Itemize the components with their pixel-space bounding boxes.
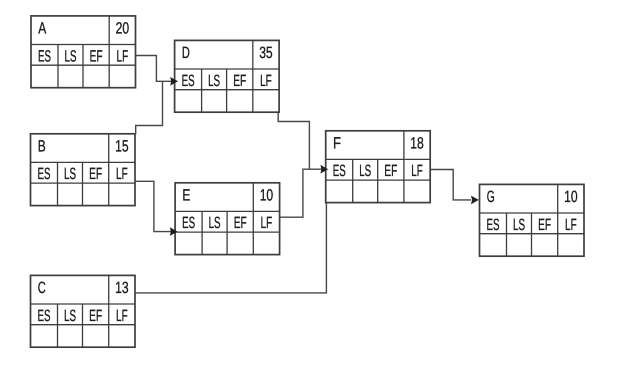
svg-text:LS: LS (65, 47, 77, 65)
svg-text:LS: LS (209, 214, 221, 232)
svg-text:10: 10 (260, 187, 274, 205)
svg-text:F: F (333, 135, 341, 153)
svg-text:13: 13 (115, 279, 129, 297)
svg-text:LF: LF (261, 214, 273, 232)
svg-text:LS: LS (513, 216, 525, 234)
svg-text:B: B (38, 138, 46, 156)
svg-text:ES: ES (182, 214, 195, 232)
svg-text:LF: LF (565, 216, 577, 234)
svg-text:EF: EF (538, 216, 551, 234)
svg-text:G: G (487, 188, 495, 206)
svg-text:LS: LS (359, 162, 371, 180)
svg-text:LF: LF (411, 162, 423, 180)
svg-text:10: 10 (564, 188, 578, 206)
svg-text:LS: LS (208, 72, 220, 90)
svg-text:LS: LS (64, 307, 76, 325)
svg-text:EF: EF (234, 214, 247, 232)
svg-text:35: 35 (259, 44, 273, 62)
svg-text:ES: ES (38, 307, 51, 325)
svg-text:LF: LF (260, 72, 272, 90)
svg-text:C: C (38, 279, 46, 297)
svg-text:A: A (38, 20, 46, 38)
svg-text:ES: ES (182, 72, 195, 90)
svg-text:ES: ES (38, 47, 51, 65)
svg-text:15: 15 (115, 138, 129, 156)
svg-text:LF: LF (117, 47, 129, 65)
svg-text:D: D (182, 44, 190, 62)
svg-text:ES: ES (38, 165, 51, 183)
svg-text:EF: EF (233, 72, 246, 90)
svg-text:LS: LS (64, 165, 76, 183)
svg-text:ES: ES (487, 216, 500, 234)
svg-text:E: E (182, 187, 190, 205)
svg-text:EF: EF (384, 162, 397, 180)
svg-text:20: 20 (116, 20, 130, 38)
svg-text:LF: LF (116, 307, 128, 325)
svg-text:LF: LF (116, 165, 128, 183)
svg-text:18: 18 (410, 135, 424, 153)
svg-text:EF: EF (90, 47, 103, 65)
svg-text:ES: ES (333, 162, 346, 180)
svg-text:EF: EF (89, 165, 102, 183)
svg-text:EF: EF (89, 307, 102, 325)
